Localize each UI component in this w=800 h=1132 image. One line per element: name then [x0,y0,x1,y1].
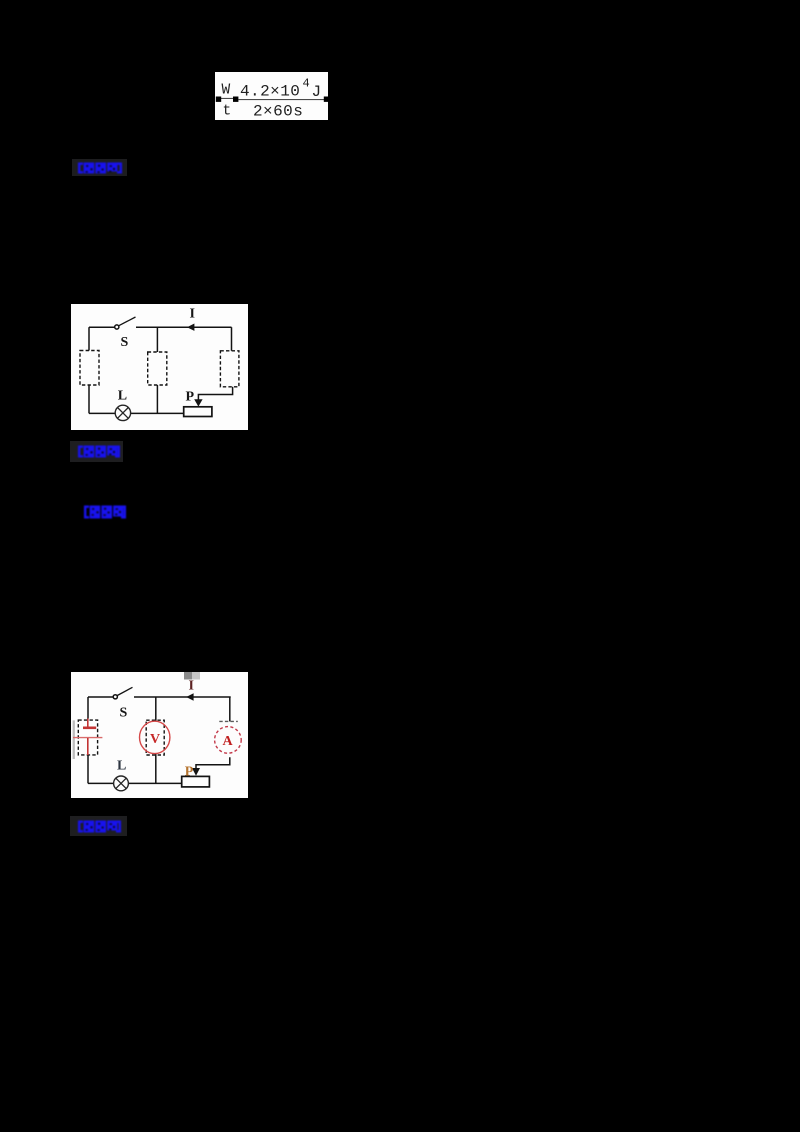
main fraction bar [239,99,325,100]
wire ammeter branch upper [229,697,231,721]
circuit diagram 2 (answer figure with battery, voltmeter, ammeter in red) [71,672,248,798]
bottom wire [88,782,182,784]
wire left branch lower [88,385,90,413]
blue label 1 [72,159,127,176]
selection handle right [324,97,329,102]
svg-text:P: P [186,390,195,405]
svg-text:4: 4 [303,77,310,91]
svg-text:I: I [189,679,194,694]
wire switch to top-right corner [134,696,231,698]
dashed top edge of ammeter box [219,720,238,722]
wire switch to top-right corner [136,326,232,328]
switch S [113,695,117,699]
lamp L [114,776,129,791]
blue label 2 [70,441,123,462]
dashed box middle component [148,352,167,385]
wire voltmeter branch upper [155,697,157,721]
svg-text:A: A [223,734,234,749]
svg-text:L: L [118,389,127,404]
rheostat body [184,407,212,417]
wire voltmeter branch lower [155,754,157,784]
dashed box around battery [78,720,97,755]
circuit diagram 1 (answer figure with dashed component boxes) [71,304,248,430]
svg-text:S: S [120,706,128,721]
wire ammeter branch to slider [196,757,230,768]
gray selection bar left [73,720,75,759]
svg-text:I: I [190,307,195,322]
battery (red) [73,719,102,756]
voltmeter (red circle with V) [140,721,170,753]
blue label 3 [82,504,128,525]
wire middle branch upper [156,327,158,352]
rheostat body [182,776,210,787]
svg-text:J: J [312,83,322,101]
dashed box around voltmeter [146,720,164,755]
ammeter (red dashed circle with A) [215,727,242,754]
svg-text:t: t [223,104,232,120]
wire middle branch lower [156,385,158,413]
svg-text:L: L [117,759,126,774]
svg-text:2×60s: 2×60s [253,103,303,121]
slider arrow P [192,768,200,776]
current direction arrow I [186,693,193,700]
blue label 4 [70,816,127,836]
selection handle middle [233,97,238,102]
selection handle left [216,97,221,102]
equation W/t = 4.2x10^4 J / 2x60s [215,72,328,120]
svg-text:4.2×10: 4.2×10 [240,83,300,101]
lamp L [115,405,130,420]
wire top-left to switch [88,696,114,698]
wire right branch below box to slider [198,387,232,400]
svg-text:V: V [150,732,160,747]
current direction arrow I [187,324,194,331]
svg-text:P: P [185,764,194,779]
dashed box left component [80,351,99,386]
svg-text:S: S [121,335,129,350]
wire left branch upper [87,697,89,719]
wire right branch upper [231,327,233,351]
bottom wire [89,412,184,414]
svg-text:W: W [222,83,231,99]
wire left branch lower [87,755,89,783]
fraction bar W/t [218,98,234,99]
switch S [115,325,119,329]
wire top-left to switch [89,326,115,328]
slider arrow P [194,399,202,406]
gray handle tab [184,672,192,680]
wire left branch upper [88,327,90,350]
dashed box right component [220,351,239,387]
